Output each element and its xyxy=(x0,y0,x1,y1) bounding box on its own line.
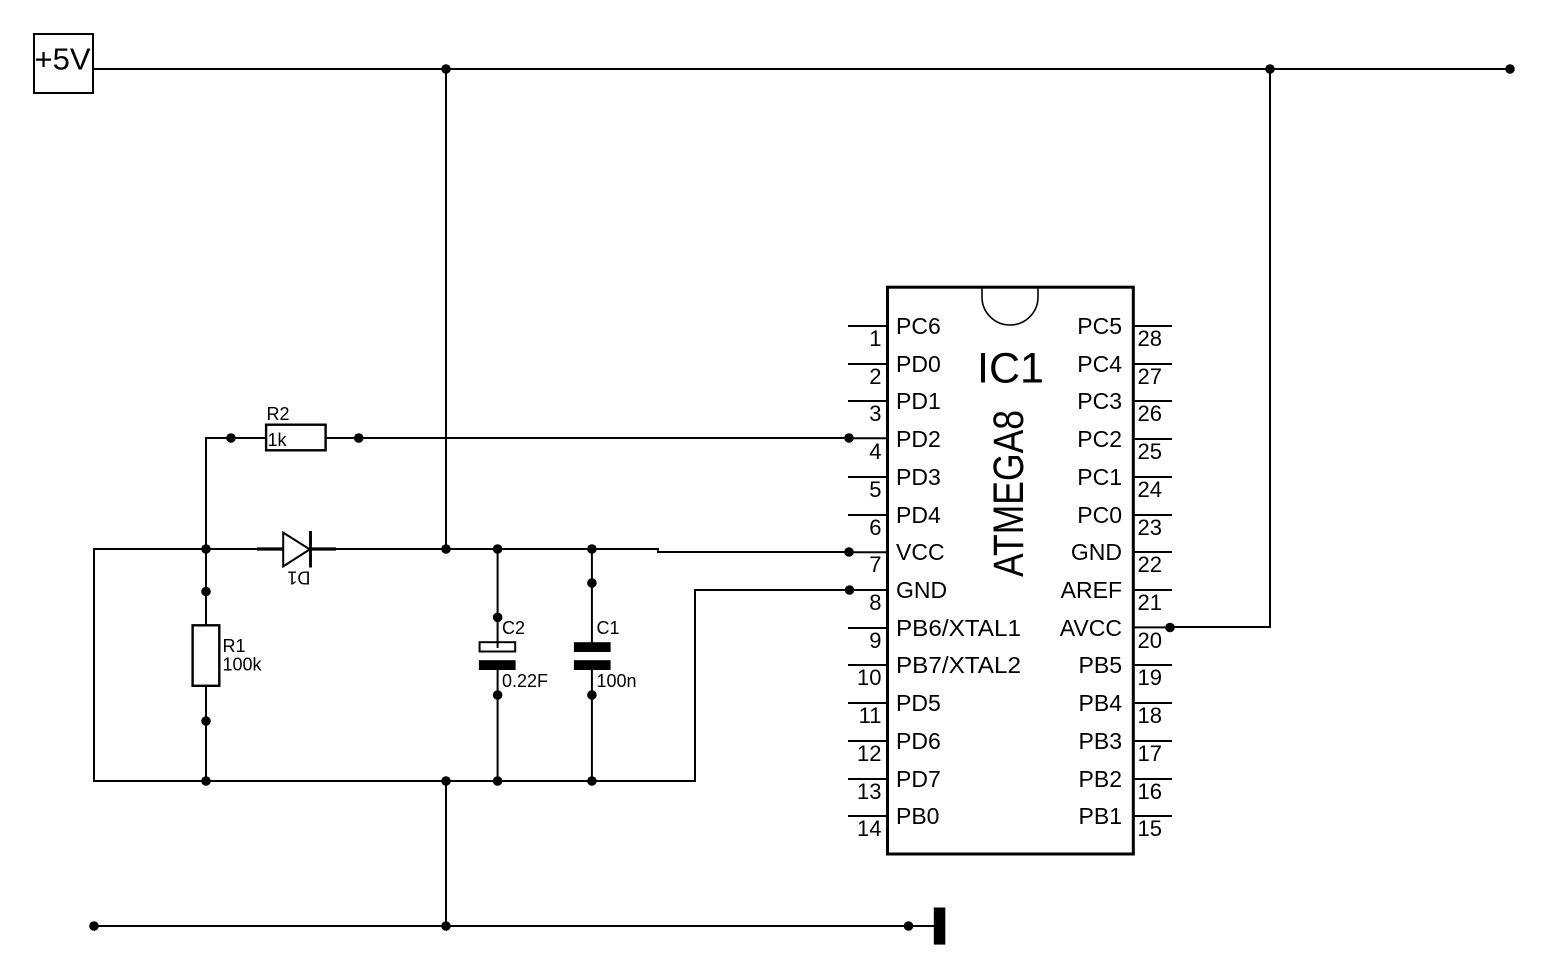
svg-text:C1: C1 xyxy=(597,618,620,638)
svg-text:AREF: AREF xyxy=(1061,577,1122,603)
IC1 pin 27 PC4 stub xyxy=(1133,363,1171,365)
svg-text:3: 3 xyxy=(869,401,881,426)
svg-text:D1: D1 xyxy=(287,568,310,588)
svg-text:PC3: PC3 xyxy=(1077,388,1122,414)
svg-text:27: 27 xyxy=(1138,364,1162,389)
svg-text:25: 25 xyxy=(1138,439,1162,464)
svg-text:14: 14 xyxy=(857,816,881,841)
svg-text:28: 28 xyxy=(1138,326,1162,351)
svg-text:9: 9 xyxy=(869,628,881,653)
node top rail right end xyxy=(1505,64,1515,74)
wire bottom row xyxy=(94,780,695,782)
node GND pin 8 junction xyxy=(845,585,855,595)
IC U1 ATMEGA8 body xyxy=(888,287,1134,854)
IC1 pin 20 AVCC stub xyxy=(1133,626,1171,628)
svg-text:R1: R1 xyxy=(223,636,246,656)
wire GND pin 8 vertical xyxy=(694,590,696,781)
node VCC row / x206 xyxy=(201,544,211,554)
IC1 pin 4 PD2 stub xyxy=(849,437,888,439)
svg-text:12: 12 xyxy=(857,741,881,766)
IC1 pin 17 PB3 stub xyxy=(1133,740,1171,742)
svg-text:PD6: PD6 xyxy=(896,728,941,754)
node bottom row / x446 xyxy=(441,776,451,786)
svg-text:100k: 100k xyxy=(223,655,263,675)
IC1 pin 15 PB1 stub xyxy=(1133,815,1171,817)
IC1 pin 28 PC5 stub xyxy=(1133,325,1171,327)
wire x206 R2 corner down to VCC row xyxy=(205,438,207,549)
IC1 pin 1 PC6 stub xyxy=(849,325,888,327)
svg-text:10: 10 xyxy=(857,665,881,690)
diode D1 cathode lead xyxy=(311,547,337,550)
svg-text:PB6/XTAL1: PB6/XTAL1 xyxy=(896,615,1021,641)
diode D1 anode lead xyxy=(257,547,283,550)
IC1 pin 22 GND stub xyxy=(1133,551,1171,553)
svg-text:PB0: PB0 xyxy=(896,803,939,829)
diode D1 cathode bar xyxy=(309,531,312,568)
wire R1 bottom to bottom row xyxy=(205,686,207,781)
svg-text:PB7/XTAL2: PB7/XTAL2 xyxy=(896,652,1021,678)
node AVCC pin 20 junction xyxy=(1165,623,1175,633)
svg-text:1k: 1k xyxy=(268,430,288,450)
node bottom row / C2 xyxy=(493,776,503,786)
capacitor C1 top plate xyxy=(574,642,611,652)
svg-text:23: 23 xyxy=(1138,515,1162,540)
svg-text:0.22F: 0.22F xyxy=(502,671,548,691)
wire +5V top rail xyxy=(93,68,1510,70)
capacitor C2 top plate (hollow) xyxy=(480,642,516,651)
svg-text:17: 17 xyxy=(1138,741,1162,766)
svg-text:100n: 100n xyxy=(597,671,637,691)
svg-text:PC2: PC2 xyxy=(1077,426,1122,452)
IC1 pin 5 PD3 stub xyxy=(849,476,888,478)
wire vertical drop x1270 xyxy=(1269,69,1271,627)
IC1 pin 6 PD4 stub xyxy=(849,514,888,516)
svg-text:PD1: PD1 xyxy=(896,388,941,414)
wire C2 bottom xyxy=(497,670,499,781)
svg-text:19: 19 xyxy=(1138,665,1162,690)
svg-text:4: 4 xyxy=(869,439,881,464)
node R2 pin 1 junction xyxy=(226,433,236,443)
svg-text:AVCC: AVCC xyxy=(1060,615,1122,641)
svg-text:18: 18 xyxy=(1138,703,1162,728)
wire VCC row jog xyxy=(657,549,659,552)
svg-text:8: 8 xyxy=(869,590,881,615)
IC1 pin 23 PC0 stub xyxy=(1133,514,1171,516)
wire R2 right to PD2 pin 4 xyxy=(326,437,849,439)
svg-text:ATMEGA8: ATMEGA8 xyxy=(985,410,1033,577)
IC1 pin 2 PD0 stub xyxy=(849,363,888,365)
svg-text:PD2: PD2 xyxy=(896,426,941,452)
wire GND pin 8 horizontal xyxy=(695,589,850,591)
IC1 pin 12 PD6 stub xyxy=(849,740,888,742)
node VCC pin 7 junction xyxy=(844,547,854,557)
IC1 pin 14 PB0 stub xyxy=(849,815,888,817)
svg-text:PC5: PC5 xyxy=(1077,313,1122,339)
svg-text:1: 1 xyxy=(869,326,881,351)
svg-text:PC6: PC6 xyxy=(896,313,941,339)
IC1 pin 13 PD7 stub xyxy=(849,778,888,780)
wire VCC row right segment to pin 7 xyxy=(658,551,849,553)
resistor R1 xyxy=(193,625,220,686)
wire VCC row left segment xyxy=(94,548,658,550)
node ground rail / right xyxy=(904,921,914,931)
svg-text:PC1: PC1 xyxy=(1077,464,1122,490)
node bottom row / x206 xyxy=(201,776,211,786)
wire left vertical x94 xyxy=(93,549,95,781)
node ground rail left end xyxy=(89,921,99,931)
svg-text:26: 26 xyxy=(1138,401,1162,426)
wire C2 top xyxy=(497,549,499,647)
svg-text:24: 24 xyxy=(1138,477,1162,502)
wire to AVCC pin 20 xyxy=(1170,626,1270,628)
svg-text:R2: R2 xyxy=(267,404,290,424)
capacitor C1 bottom plate xyxy=(574,660,611,670)
svg-text:+5V: +5V xyxy=(35,42,91,77)
svg-text:PB3: PB3 xyxy=(1079,728,1122,754)
IC1 pin 19 PB5 stub xyxy=(1133,664,1171,666)
svg-text:IC1: IC1 xyxy=(977,344,1044,392)
node C2 pin + junction xyxy=(493,613,503,623)
svg-text:PD5: PD5 xyxy=(896,690,941,716)
svg-text:20: 20 xyxy=(1138,628,1162,653)
IC1 pin 3 PD1 stub xyxy=(849,400,888,402)
wire x206 VCC row to R1 xyxy=(205,549,207,626)
svg-text:11: 11 xyxy=(859,703,882,728)
svg-text:16: 16 xyxy=(1138,779,1162,804)
IC1 pin 11 PD5 stub xyxy=(849,702,888,704)
node PD2 pin 4 junction xyxy=(844,433,854,443)
IC1 pin 9 PB6/XTAL1 stub xyxy=(849,627,888,629)
IC1 pin 21 AREF stub xyxy=(1133,589,1171,591)
svg-text:21: 21 xyxy=(1138,590,1162,615)
node bottom row / C1 xyxy=(587,776,597,786)
svg-text:13: 13 xyxy=(857,779,881,804)
svg-text:15: 15 xyxy=(1138,816,1162,841)
svg-text:2: 2 xyxy=(869,364,881,389)
svg-text:PB4: PB4 xyxy=(1079,690,1123,716)
svg-text:PC4: PC4 xyxy=(1077,351,1122,377)
svg-text:PB5: PB5 xyxy=(1079,652,1122,678)
IC1 pin 10 PB7/XTAL2 stub xyxy=(849,664,888,666)
wire ground rail xyxy=(94,925,934,927)
node R1 pin 1 junction xyxy=(201,587,211,597)
IC1 pin 16 PB2 stub xyxy=(1133,778,1171,780)
svg-text:7: 7 xyxy=(869,552,881,577)
svg-text:PB2: PB2 xyxy=(1079,766,1122,792)
capacitor C2 bottom plate xyxy=(479,660,516,670)
node C1 pin 1 junction xyxy=(587,578,597,588)
wire R2 left xyxy=(206,437,266,439)
node VCC row / C2 xyxy=(493,544,503,554)
IC1 pin 24 PC1 stub xyxy=(1133,476,1171,478)
diode D1 triangle xyxy=(283,533,310,567)
svg-text:PD0: PD0 xyxy=(896,351,941,377)
IC1 pin 25 PC2 stub xyxy=(1133,438,1171,440)
svg-text:PD7: PD7 xyxy=(896,766,941,792)
ground symbol xyxy=(934,908,946,945)
svg-text:6: 6 xyxy=(869,515,881,540)
resistor R2 xyxy=(266,425,326,451)
node R2 pin 2 junction xyxy=(354,433,364,443)
svg-text:C2: C2 xyxy=(502,618,525,638)
wire vertical drop x446 to VCC row xyxy=(445,69,447,549)
node VCC row / x446 xyxy=(441,544,451,554)
svg-text:PD3: PD3 xyxy=(896,464,941,490)
IC1 pin 26 PC3 stub xyxy=(1133,400,1171,402)
wire C1 top xyxy=(591,549,593,643)
+5V supply box xyxy=(34,34,93,93)
IC1 pin 18 PB4 stub xyxy=(1133,702,1171,704)
svg-text:22: 22 xyxy=(1138,552,1162,577)
IC1 pin 8 GND stub xyxy=(849,589,888,591)
IC1 notch xyxy=(982,289,1038,325)
svg-text:PC0: PC0 xyxy=(1077,502,1122,528)
svg-text:5: 5 xyxy=(869,477,881,502)
IC1 pin 7 VCC stub xyxy=(849,551,888,553)
svg-text:GND: GND xyxy=(1071,539,1122,565)
node top rail / x1270 drop xyxy=(1265,64,1275,74)
svg-text:PB1: PB1 xyxy=(1079,803,1122,829)
node C2 pin - junction xyxy=(493,690,503,700)
node C1 pin 2 junction xyxy=(587,690,597,700)
node R1 pin 2 junction xyxy=(201,716,211,726)
svg-text:PD4: PD4 xyxy=(896,502,941,528)
node top rail / x446 drop xyxy=(441,64,451,74)
node ground rail / x446 xyxy=(441,921,451,931)
node VCC row / C1 xyxy=(587,544,597,554)
wire x446 bottom row to ground rail xyxy=(445,781,447,926)
svg-text:VCC: VCC xyxy=(896,539,945,565)
svg-text:GND: GND xyxy=(896,577,947,603)
wire C1 bottom xyxy=(591,670,593,781)
